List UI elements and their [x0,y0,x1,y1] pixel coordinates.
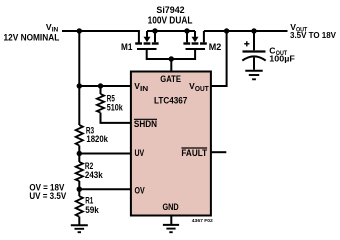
node UV junction [77,151,82,156]
pin label VIN [134,81,148,93]
svg-text:OV: OV [135,185,146,196]
svg-text:UV: UV [135,148,145,159]
node COUT junction [251,28,256,33]
wire common source rail [155,30,187,32]
svg-text:243k: 243k [85,170,104,180]
node R5 top junction [98,83,103,88]
svg-text:1820k: 1820k [86,134,108,144]
wire input rail to M1 drain [62,31,139,43]
svg-text:59k: 59k [85,205,99,215]
svg-text:GATE: GATE [160,74,181,85]
ground COUT [245,71,262,80]
svg-text:100µF: 100µF [269,55,295,64]
resistor R2 [76,162,83,181]
svg-text:M1: M1 [121,41,132,52]
svg-text:GND: GND [163,202,179,213]
svg-text:OUT: OUT [195,86,209,93]
pin label VOUT [189,81,209,93]
wire VIN pin [79,85,131,87]
ground GND pin [163,225,179,232]
ground bottom left [71,225,88,232]
IC U1 LTC4367 body [131,72,211,216]
wire SHDN pin from R5 [101,113,131,123]
resistor R3 [76,125,83,145]
transistor M1 [135,31,171,59]
wire GND pin [170,216,172,225]
wire gate junction to GATE pin [170,59,172,72]
wire UV pin [79,153,131,155]
node M2 source junction [184,28,189,33]
node VOUT label [290,22,307,34]
label COUT [269,46,287,58]
capacitor COUT [242,31,265,70]
svg-text:FAULT: FAULT [181,148,207,159]
resistor R5 [97,86,104,112]
svg-text:IN: IN [140,86,148,93]
svg-text:12V NOMINAL: 12V NOMINAL [4,32,60,43]
svg-text:SHDN: SHDN [134,119,157,130]
wire left bus upper [78,31,80,125]
node M1 source junction [152,28,157,33]
node VIN label [46,22,59,34]
node bus VIN junction [77,83,82,88]
wire VOUT pin drop [211,31,227,86]
svg-text:4367 F02: 4367 F02 [192,218,213,223]
svg-text:3.5V TO 18V: 3.5V TO 18V [290,31,337,40]
svg-text:510k: 510k [107,103,124,113]
wire OV pin [79,188,131,190]
svg-text:100V DUAL: 100V DUAL [148,15,193,26]
wire bus R3 to R2 [78,146,80,163]
wire FAULT stub [211,151,226,153]
node VOUT drop junction [224,28,229,33]
resistor R1 [76,196,83,216]
wire bus R2 to R1 [78,181,80,196]
node input junction [77,28,82,33]
svg-text:UV = 3.5V: UV = 3.5V [29,190,66,201]
node gate junction [169,56,174,61]
wire R1 to ground [78,217,80,226]
pin label SHDN with overline [134,119,157,130]
transistor M2 [171,31,207,59]
node OV junction [77,187,82,192]
svg-text:M2: M2 [209,41,222,52]
svg-text:Si7942: Si7942 [156,4,184,15]
svg-text:LTC4367: LTC4367 [154,95,187,106]
wire output rail [204,30,288,32]
pin label FAULT with overline [181,148,207,159]
